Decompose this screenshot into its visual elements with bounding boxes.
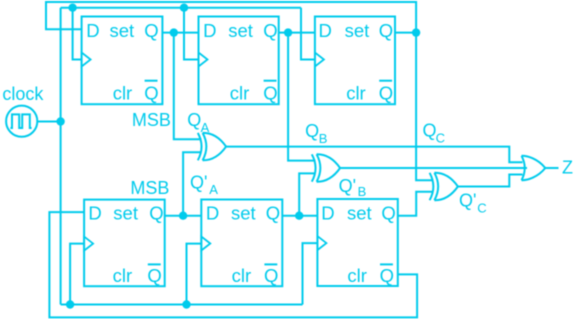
wire top feedback T1 from QC	[46, 2, 416, 33]
svg-text:clr: clr	[232, 265, 252, 286]
svg-text:Q: Q	[144, 20, 158, 41]
node clock tap U4	[66, 300, 74, 308]
wire QA tap to xor1	[174, 33, 202, 140]
wire Q3 out	[395, 32, 416, 34]
svg-text:Q': Q'	[339, 176, 356, 196]
wire Z output	[545, 167, 558, 169]
svg-text:Q: Q	[380, 265, 394, 286]
svg-text:set: set	[345, 20, 370, 41]
node clock tap U1	[68, 4, 76, 12]
svg-text:Q: Q	[379, 82, 393, 103]
wire Q2 to D3	[279, 32, 315, 34]
node QB'	[295, 212, 303, 220]
svg-text:D: D	[86, 20, 99, 41]
node QA	[170, 28, 178, 36]
svg-text:MSB: MSB	[132, 110, 171, 130]
svg-text:clr: clr	[113, 265, 133, 286]
svg-text:clr: clr	[346, 82, 366, 103]
xor gate X2 (B)	[312, 154, 340, 181]
wire QC drop to xor3	[416, 33, 433, 181]
wire QA' tap to xor1	[183, 152, 201, 216]
svg-text:Q: Q	[187, 110, 201, 130]
or gate U7	[522, 156, 546, 180]
svg-text:A: A	[209, 182, 218, 197]
xor gate X1 (A)	[198, 133, 226, 160]
wire clock bus vertical	[60, 8, 62, 305]
svg-text:D: D	[203, 20, 216, 41]
wire xor3 output to or gate	[458, 175, 523, 187]
wire bottom feedback from Q6bar	[49, 212, 417, 317]
node clock junction	[56, 117, 64, 125]
svg-text:Q: Q	[266, 203, 280, 224]
svg-text:Q: Q	[379, 20, 393, 41]
svg-text:Q: Q	[264, 265, 278, 286]
svg-text:set: set	[113, 203, 138, 224]
svg-text:Q: Q	[147, 265, 161, 286]
svg-text:Q: Q	[144, 82, 158, 103]
svg-text:clr: clr	[347, 265, 367, 286]
svg-text:set: set	[231, 203, 256, 224]
wire clock drop U1	[73, 8, 82, 60]
svg-text:D: D	[88, 203, 101, 224]
svg-text:Q': Q'	[190, 173, 207, 193]
flip-flop U6 (bottom row, right)	[317, 199, 397, 286]
flip-flop U2 (top row, middle)	[199, 17, 279, 105]
svg-text:Q: Q	[423, 121, 437, 141]
svg-text:B: B	[358, 184, 367, 199]
svg-text:MSB: MSB	[130, 178, 169, 198]
svg-text:set: set	[110, 20, 135, 41]
svg-text:D: D	[321, 203, 334, 224]
svg-text:Q: Q	[263, 20, 277, 41]
wire Q4 to D5	[165, 215, 202, 217]
node QB	[284, 28, 292, 36]
svg-text:C: C	[477, 200, 486, 215]
node QA'	[179, 212, 187, 220]
svg-text:Q: Q	[381, 203, 395, 224]
wire clock to bus	[37, 121, 60, 123]
svg-text:D: D	[319, 20, 332, 41]
wire Q6 tap to xor3	[398, 192, 434, 216]
label QC'	[459, 191, 487, 216]
node clock tap U5	[182, 300, 190, 308]
wire clock rise U6	[303, 243, 318, 304]
clock source	[6, 106, 37, 137]
wire clock drop U3	[301, 8, 315, 60]
svg-text:Q: Q	[149, 203, 163, 224]
svg-text:B: B	[319, 131, 328, 146]
wire Q1 to D2	[162, 32, 198, 34]
wire xor1 output to or gate	[226, 147, 523, 163]
svg-text:Z: Z	[562, 158, 573, 178]
label QA'	[190, 173, 218, 197]
wire clock rise U5	[187, 244, 202, 305]
svg-text:clr: clr	[113, 82, 133, 103]
wire clock drop U2	[184, 8, 199, 60]
wire clock rise U4	[70, 244, 84, 305]
wire QB tap to xor2	[288, 33, 315, 161]
svg-text:Q': Q'	[459, 191, 476, 211]
wire Q5 to D6	[282, 215, 317, 217]
wire xor2 output to or gate	[340, 167, 527, 169]
svg-text:A: A	[201, 120, 210, 135]
node QC	[412, 28, 420, 36]
svg-text:D: D	[206, 203, 219, 224]
label QB'	[339, 176, 367, 199]
svg-text:clock: clock	[2, 84, 44, 104]
svg-text:set: set	[347, 203, 372, 224]
label QA	[187, 110, 209, 135]
wire QB' tap to xor2	[299, 173, 315, 215]
flip-flop U1 (top row, MSB)	[82, 17, 163, 105]
node clock tap U2	[180, 4, 188, 12]
flip-flop U5 (bottom row, middle)	[201, 200, 282, 287]
flip-flop U3 (top row, right)	[315, 17, 395, 105]
label QB	[305, 121, 327, 146]
wire bottom clock rail R1	[61, 304, 303, 306]
label QC	[423, 121, 445, 146]
wire top clock rail T2	[61, 7, 301, 9]
svg-text:C: C	[436, 130, 445, 145]
xor gate X3 (C)	[430, 173, 458, 200]
svg-text:Q: Q	[263, 82, 277, 103]
svg-text:clr: clr	[230, 82, 250, 103]
svg-text:Q: Q	[305, 121, 319, 141]
svg-text:set: set	[228, 20, 253, 41]
flip-flop U4 (bottom row, MSB)	[84, 200, 165, 287]
